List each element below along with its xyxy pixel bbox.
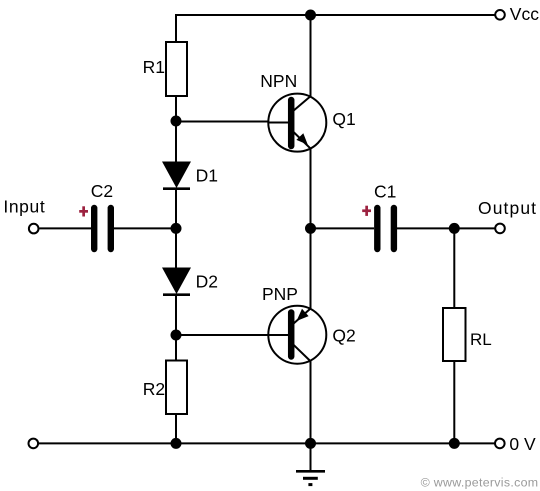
wire ground stub <box>310 443 312 471</box>
wire C1 to RL node <box>397 227 454 229</box>
svg-text:C2: C2 <box>91 181 113 201</box>
resistor R2 <box>166 361 187 415</box>
wire Q1 base <box>176 121 289 123</box>
node ground junction <box>305 438 316 449</box>
svg-text:D2: D2 <box>196 271 218 291</box>
wire to output terminal <box>454 227 495 229</box>
wire RL node down to RL <box>453 228 455 308</box>
svg-text:Q2: Q2 <box>332 325 355 345</box>
wire input to C2 <box>40 227 92 229</box>
svg-text:RL: RL <box>470 330 492 349</box>
wire D1 to D2 <box>175 188 177 268</box>
node RL top junction <box>449 223 460 234</box>
wire collector rail down to Q1 <box>310 15 312 97</box>
wire Q2 collector to bottom rail <box>310 361 312 443</box>
wire RL bottom to rail <box>453 361 455 443</box>
svg-text:Output: Output <box>478 198 537 218</box>
label plus C2 <box>79 206 88 216</box>
wire output node to C1 <box>311 227 375 229</box>
svg-text:NPN: NPN <box>260 71 297 91</box>
svg-text:0 V: 0 V <box>509 434 536 454</box>
wire top rail Vcc <box>176 14 495 16</box>
ground <box>296 471 325 484</box>
capacitor C2 <box>94 208 111 249</box>
resistor RL <box>443 308 466 361</box>
node junction top rail <box>305 10 316 21</box>
wire output node down to Q2 <box>310 228 312 308</box>
terminal Vcc <box>495 10 505 20</box>
transistor Q2 <box>268 306 327 364</box>
node input junction <box>171 223 182 234</box>
label plus C1 <box>362 206 371 216</box>
wire bottom rail <box>39 442 495 444</box>
node output junction <box>305 223 316 234</box>
terminal Output <box>495 224 505 234</box>
wire Q2 base <box>176 334 289 336</box>
svg-text:Input: Input <box>3 196 45 216</box>
svg-text:PNP: PNP <box>262 284 298 304</box>
transistor Q1 <box>268 94 327 152</box>
node RL bottom junction <box>449 438 460 449</box>
svg-text:R1: R1 <box>143 57 165 77</box>
wire Q1 emitter to output node <box>310 148 312 228</box>
capacitor C1 <box>377 208 394 249</box>
terminal bottom left <box>29 439 39 449</box>
node junction below R1 <box>171 116 182 127</box>
resistor R1 <box>166 42 187 96</box>
svg-text:© www.petervis.com: © www.petervis.com <box>421 475 539 489</box>
wire C2 to junction <box>114 227 176 229</box>
svg-text:D1: D1 <box>196 166 218 186</box>
wire D2 to R2 <box>175 294 177 361</box>
diode D1 <box>162 162 191 189</box>
terminal 0V <box>495 439 505 449</box>
svg-text:Q1: Q1 <box>332 109 355 129</box>
wire R2 bottom to rail <box>175 414 177 443</box>
node junction above R2 <box>171 330 182 341</box>
svg-text:R2: R2 <box>143 379 165 399</box>
svg-text:C1: C1 <box>374 181 396 201</box>
svg-text:Vcc: Vcc <box>510 4 539 24</box>
wire R1 bottom to D1 <box>175 96 177 162</box>
diode D2 <box>162 268 191 295</box>
node junction R2 bottom rail <box>171 438 182 449</box>
wire R1 top (rail corner down to R1) <box>175 14 177 42</box>
terminal Input <box>29 224 39 234</box>
